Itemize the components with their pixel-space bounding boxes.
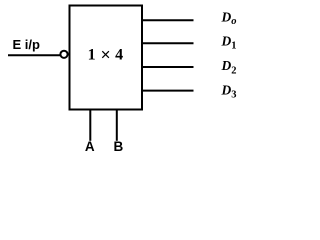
- svg-text:D2: D2: [221, 58, 237, 76]
- svg-text:Do: Do: [221, 9, 237, 27]
- svg-text:D1: D1: [221, 33, 237, 51]
- svg-text:A: A: [85, 139, 95, 154]
- svg-text:E i/p: E i/p: [13, 37, 41, 52]
- svg-text:B: B: [114, 139, 124, 154]
- svg-text:D3: D3: [221, 83, 237, 101]
- svg-text:1 × 4: 1 × 4: [88, 44, 124, 64]
